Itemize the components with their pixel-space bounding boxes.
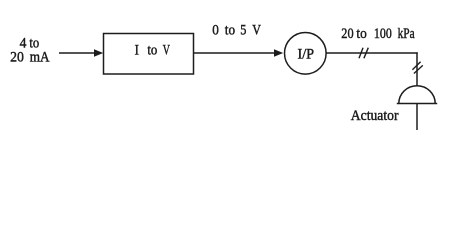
svg-text:I: I bbox=[135, 43, 140, 59]
svg-text:Actuator: Actuator bbox=[351, 108, 399, 124]
svg-text:kPa: kPa bbox=[398, 26, 416, 42]
svg-text:mA: mA bbox=[30, 50, 51, 66]
svg-text:V: V bbox=[163, 43, 171, 59]
svg-text:to: to bbox=[147, 43, 157, 59]
svg-text:to: to bbox=[225, 22, 235, 38]
svg-text:5: 5 bbox=[240, 22, 246, 38]
svg-text:to: to bbox=[356, 26, 366, 42]
svg-text:20: 20 bbox=[10, 50, 24, 66]
svg-text:I/P: I/P bbox=[298, 47, 315, 63]
svg-text:20: 20 bbox=[341, 26, 353, 42]
svg-text:100: 100 bbox=[374, 26, 392, 42]
svg-text:V: V bbox=[252, 22, 261, 38]
svg-text:0: 0 bbox=[212, 22, 219, 38]
